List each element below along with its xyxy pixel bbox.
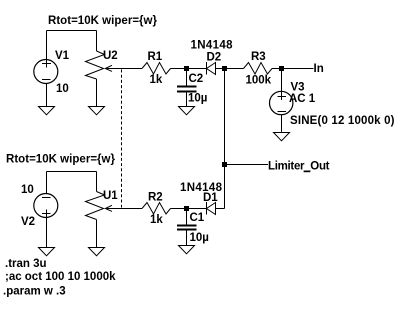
wire U2 bottom lead (96, 79, 98, 106)
wire U2 top lead (96, 31, 98, 52)
wire V1 bottom lead (46, 84, 48, 107)
diode D2 (207, 62, 216, 75)
diode D1 (207, 202, 216, 215)
svg-text:U1: U1 (103, 190, 118, 202)
wire top rail V1 to U2 (47, 30, 97, 32)
voltage source V1 (34, 60, 58, 84)
svg-text:1k: 1k (150, 74, 163, 86)
ground under V1 (39, 107, 55, 115)
wire V3 bottom lead (281, 115, 283, 132)
ground under U1 (89, 248, 105, 256)
wire V2 bottom lead (46, 210, 48, 248)
junction node R1/C2/D2 (184, 66, 189, 71)
wire U1 bottom lead (96, 220, 98, 248)
svg-text:V1: V1 (55, 50, 70, 62)
junction node Limiter_Out (222, 162, 227, 167)
potentiometer U2 wiper arrow (105, 65, 142, 71)
svg-text:SINE(0 12 1000k 0): SINE(0 12 1000k 0) (290, 115, 395, 127)
svg-text:R3: R3 (251, 51, 266, 63)
junction node R3/V3/In (279, 66, 284, 71)
svg-text:Limiter_Out: Limiter_Out (268, 161, 330, 173)
wire V2 top lead (46, 172, 48, 194)
svg-text:Rtot=10K wiper={w}: Rtot=10K wiper={w} (6, 154, 116, 166)
svg-text:U2: U2 (103, 50, 118, 62)
svg-text:10µ: 10µ (190, 232, 209, 244)
capacitor C1 (177, 226, 197, 230)
resistor R1 (142, 63, 171, 75)
wire U1 top lead (96, 172, 98, 192)
svg-text:V2: V2 (21, 216, 35, 228)
svg-text:D1: D1 (203, 192, 218, 204)
junction node R2/C1/D1 (184, 206, 189, 211)
svg-text:C2: C2 (189, 73, 204, 85)
svg-text:.tran 3u: .tran 3u (5, 258, 47, 270)
wire R2 to node C1 (171, 208, 188, 210)
svg-text:R2: R2 (148, 192, 163, 204)
wire C1 top lead (186, 209, 188, 226)
svg-text:1N4148: 1N4148 (191, 40, 234, 52)
wire V3 top lead (281, 69, 283, 101)
potentiometer U1 body (86, 192, 105, 220)
wire node In label (281, 68, 314, 70)
wire V1 top lead (46, 31, 48, 68)
potentiometer U1 wiper arrow (105, 205, 142, 211)
voltage source V2 (34, 194, 58, 218)
wire D1 anode to bus (216, 208, 225, 210)
wire D2 anode to bus (216, 68, 225, 70)
potentiometer U2 body (86, 51, 105, 79)
capacitor C2 (177, 87, 197, 92)
wire node to D2 cathode (187, 68, 207, 70)
wire R1 to node C2 (171, 68, 188, 70)
wire node to D1 cathode (187, 208, 207, 210)
ground under V3 (274, 133, 290, 141)
svg-text:V3: V3 (291, 82, 305, 94)
wire to Limiter_Out label (225, 164, 269, 166)
svg-text:10: 10 (56, 83, 69, 95)
svg-text:C1: C1 (190, 212, 205, 224)
svg-text:.param w .3: .param w .3 (3, 286, 66, 298)
svg-text:R1: R1 (148, 51, 163, 63)
svg-text:10µ: 10µ (188, 93, 207, 105)
svg-text:Rtot=10K wiper={w}: Rtot=10K wiper={w} (48, 15, 158, 27)
ground under U2 (89, 107, 105, 115)
dashed wiper link U2 to U1 (121, 70, 123, 208)
svg-text:10: 10 (21, 184, 34, 196)
wire vertical bus D2 node to D1 (224, 69, 226, 209)
resistor R2 (142, 203, 171, 215)
svg-text:;ac oct 100 10 1000k: ;ac oct 100 10 1000k (5, 271, 116, 283)
svg-text:AC 1: AC 1 (289, 93, 316, 105)
node Limiter_Out label (304, 171, 311, 173)
ground under C1 (179, 246, 195, 254)
wire C1 bottom lead (186, 231, 188, 247)
svg-text:D2: D2 (207, 52, 222, 64)
svg-text:In: In (314, 63, 324, 75)
wire R3 to node In (272, 68, 281, 70)
wire bottom rail V2 to U1 (47, 171, 97, 173)
svg-text:1k: 1k (150, 214, 163, 226)
wire bus node to R3 (225, 68, 244, 70)
voltage source V3 (270, 91, 293, 114)
ground under V2 (39, 248, 55, 256)
wire C2 bottom lead (186, 92, 188, 106)
wire C2 top lead (186, 69, 188, 87)
ground under C2 (179, 107, 195, 115)
svg-text:100k: 100k (246, 75, 272, 87)
junction node D2/R3/bus (222, 66, 227, 71)
resistor R3 (244, 63, 273, 75)
